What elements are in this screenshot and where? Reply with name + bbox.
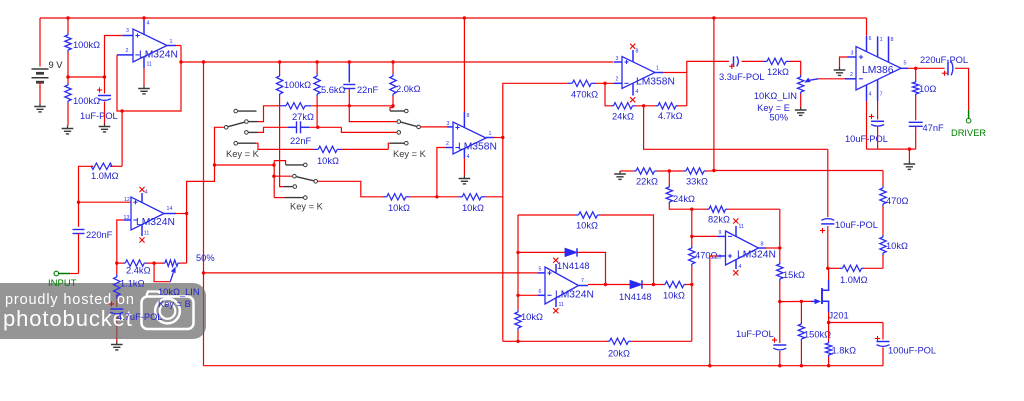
resistor R27 1.0MOhm [840,267,843,269]
switch J1 Key=K (SPDT left) [234,109,238,113]
wire: R7 down to switch J3 [280,96,284,187]
wire: Vref rail start (row y=62) [181,61,614,63]
wire: +9V top supply bus [40,17,867,19]
resistor R29 10kOhm (right) [882,206,884,235]
photobucket watermark [0,283,206,339]
wire: U1D - input to gain network [124,219,131,221]
ground (U2A) [463,176,465,179]
resistor R1 100kOhm (divider top) [67,33,69,35]
op-amp U1B LM324N (rectifier) [538,272,545,274]
capacitor C9 220uF-POL (output) [947,61,949,75]
resistor R5 2.4kOhm [117,262,123,264]
op-amp U1A LM324N (Vref buffer) [123,35,133,37]
wire: feedback from 82k [779,209,781,248]
capacitor C5 22nF (horizontal) [296,121,298,133]
wire: coupling row to LM358 node [644,106,828,150]
wire: J1 lower contact to 10k row [256,143,314,149]
wire: envelope to J201 gate [780,300,811,302]
op-amp U2A LM358N [446,147,453,149]
resistor R22 24kOhm (vertical) [668,171,670,185]
svg-text:4.7uF-POL: 4.7uF-POL [117,312,162,322]
capacitor C3 4.7uF-POL (over watermark) [109,301,163,322]
wire: J1 throw to 27k row [258,106,281,122]
wire: output to 470k [503,83,568,137]
pin 11 unconnected [141,225,143,237]
wire: divider drop from bus [67,18,69,33]
wire: +9V drop at x=714 [713,18,715,171]
resistor R32 10kOhm (rect left) [517,310,519,312]
wire: output feedback vertical down to rectifier [502,138,504,342]
resistor R31 10kOhm (rect top) [576,214,579,216]
resistor R19 10Ohm (Zobel) [915,68,917,80]
pin 4 unconnected [141,193,143,203]
pin 8 to +9V [463,18,465,112]
wire: jog to switch J2 top contact [390,106,393,111]
pin 4 unconnected [632,83,634,95]
resistor R4 1.1kOhm [116,263,118,274]
switch J2 Key=K (SPDT mirrored) [390,110,404,112]
resistor R16 4.7kOhm [656,105,658,107]
switch J3 Key=K (SPDT mirrored) [274,161,285,165]
pin 8 unconnected [632,50,634,62]
ground (divider) [67,126,69,129]
wire: drain up [828,268,830,280]
resistor R33 20kOhm [607,340,610,342]
pin 4 to +9V [143,20,145,34]
ground (C1) [104,124,106,127]
wire: rect bottom row [518,340,607,342]
wire: rect left vertical [517,215,519,310]
wire: U1B output [579,285,589,287]
wire: source down [828,312,830,323]
battery V1 9V [39,18,41,67]
ground (22k) [620,170,634,172]
wire: U2A output [486,137,494,139]
pin 11 unconnected [555,298,557,307]
pin 7 bypass [877,79,879,101]
resistor R23 82kOhm [707,208,709,210]
op-amp U1D LM324N (input gain stage) [79,201,132,203]
op-amp U3A LM358N [614,82,622,84]
svg-text:10kΩ_LIN: 10kΩ_LIN [158,287,200,297]
resistor R11 10kOhm (switch row) [314,148,318,150]
pin 4 unconnected [735,260,737,269]
wire to ground [67,103,69,126]
wire: U1C + input to Vref rail [710,256,718,366]
ground (U4 input) [839,67,841,70]
wire: Vref bottom rail [204,365,884,367]
wire: divider middle [67,52,69,83]
wire: pot wiper to U4 - input [809,79,818,81]
resistor R10 27kOhm [280,105,286,107]
capacitor C6 3.3uF-POL [733,56,735,66]
ground (C3) [116,342,118,345]
wire: 27k row [311,105,393,107]
wire: U3A output [655,72,663,74]
capacitor C11 10uF-POL (output coupling) [827,226,829,268]
resistor R21 33kOhm [684,170,686,172]
resistor R34 10kOhm (rect out) [654,284,664,286]
resistor R14 470kOhm [568,82,573,84]
node INPUT terminal [59,273,71,275]
wire: input node vertical [79,166,94,227]
resistor R9 2.0kOhm (EQ) [392,62,394,74]
svg-text:INPUT: INPUT [48,278,77,289]
resistor R15 24kOhm [611,105,614,107]
resistor R12 10kOhm [383,196,387,198]
wire: U1A output [167,45,176,47]
capacitor C7 10uF-POL (bypass) [877,101,879,120]
resistor R4 1.1kOhm (over watermark) [114,274,145,299]
transistor Q1 J201 JFET [821,288,823,304]
capacitor C3 4.7uF-POL [116,294,118,307]
resistor R2 100kOhm (divider bottom) [67,83,69,85]
capacitor C4 22nF (EQ vertical) [348,62,350,83]
pin 4 to ground [463,149,465,159]
svg-text:Key = B: Key = B [158,299,191,309]
diode D2 1N4148 [606,284,631,286]
resistor R26 150kOhm [800,301,802,322]
wire: + input to ground [840,57,848,67]
capacitor C2 220nF [73,229,85,231]
ground (output) [908,161,910,164]
potentiometer R6 labels (over watermark) [158,287,200,309]
pin 11 to ground [143,57,145,68]
potentiometer R6 10kOhm_LIN Key=B [163,262,165,264]
pin 6 to +9V [866,18,868,36]
wire: J1 throw to 22nF row [258,127,289,132]
wire: Vref tap to C1 [68,76,105,78]
pin 8 stub [888,36,890,62]
resistor R20 22kOhm [634,170,636,172]
rectifier cell: box wires [518,214,576,216]
resistor R25 15kOhm [779,248,781,262]
wire: Vref to op-amp U1A + input [105,36,123,78]
wire: U1A out / Vref vertical to bottom rail [203,62,205,366]
wire: down to 20k row [691,285,693,342]
wire: ground rail under U4 [867,148,916,150]
wire: Vref row to rectifier + input [204,272,539,274]
wire: U1C output [759,247,767,249]
op-amp U4 LM386 [845,78,856,80]
capacitor C1 1uF-POL [104,77,106,94]
resistor R7 100kOhm (EQ) [279,62,281,74]
wire: pot wiper loop [154,263,170,282]
wire: 1.0M row (output node) [826,267,829,270]
wire: U1D output net [164,213,176,215]
op-amp U1C LM324N [718,235,726,237]
wire: U3A feedback network [605,83,611,106]
pin 4 unconnected [555,264,557,273]
pin 1 stub [877,36,879,56]
resistor R30 1.8kOhm [828,323,830,342]
wire: to U2A - input [437,148,446,197]
wire: J3 common to feedback row [318,181,383,197]
pin 11 unconnected [735,226,737,236]
pin 4 to ground rail [866,85,868,101]
ground (R18) [800,107,802,110]
wire: to U1C - input [691,209,693,236]
resistor R3 1.0MOhm [110,165,112,167]
capacitor C12 100uF-POL [882,323,884,340]
resistor R17 12kOhm [764,60,767,62]
capacitor C8 47nF (Zobel) [915,96,917,120]
wire: source row to 100uF [829,322,883,324]
wire: row to switch J3 [215,164,274,166]
wire: J2 common to U2A + input [421,126,448,128]
resistor R28 470Ohm (right) [882,171,884,187]
node DRIVER terminal [955,68,969,110]
diode D1 1N4148 [518,251,565,253]
ground (U1A) [143,86,145,89]
wire: node row to J2 middle [349,106,396,122]
svg-text:1.1kΩ: 1.1kΩ [120,279,145,289]
resistor R8 5.6kOhm (EQ) [316,62,318,74]
resistor R24 470Ohm [691,236,693,246]
wire: R3 1.0M to input bias [121,111,123,166]
wire: feedback to output [686,73,688,106]
ground (battery) [39,104,41,107]
node INPUT terminal label [48,271,77,289]
wire: U1A feedback loop [117,46,181,112]
capacitor C10 1uF-POL [779,302,781,343]
resistor R13 10kOhm (feedback) [459,196,463,198]
wire: 22nF row to J2 [309,126,341,128]
wire: U4 output [901,67,908,69]
wire: supply row to right [714,170,883,172]
camera icon [142,292,194,330]
wire: R8 to 22nF row [316,96,318,127]
potentiometer R18 10KOhm_LIN Key=E [789,61,801,75]
